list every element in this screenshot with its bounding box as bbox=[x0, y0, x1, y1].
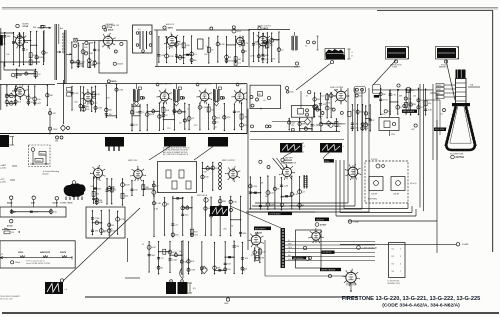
svg-text:V1: V1 bbox=[392, 249, 394, 251]
svg-text:3.3K: 3.3K bbox=[233, 202, 238, 204]
svg-text:2.2M: 2.2M bbox=[283, 186, 288, 188]
svg-text:1M: 1M bbox=[236, 246, 239, 248]
svg-text:10K: 10K bbox=[215, 168, 219, 170]
svg-text:2ND RECT MODULE: 2ND RECT MODULE bbox=[321, 270, 335, 272]
svg-text:5CG8: 5CG8 bbox=[23, 26, 29, 28]
svg-text:2.2M: 2.2M bbox=[202, 107, 207, 109]
svg-text:3DT6: 3DT6 bbox=[168, 27, 174, 29]
svg-text:AUDIO IF: AUDIO IF bbox=[166, 23, 175, 26]
svg-text:3DK6: 3DK6 bbox=[18, 252, 24, 254]
svg-text:470K: 470K bbox=[108, 228, 113, 230]
svg-text:4.7K: 4.7K bbox=[294, 194, 299, 196]
svg-text:1 amp: 1 amp bbox=[353, 222, 359, 224]
svg-text:3.3K: 3.3K bbox=[205, 177, 210, 179]
svg-text:.01: .01 bbox=[263, 100, 266, 102]
svg-text:470K: 470K bbox=[95, 218, 100, 220]
svg-text:10K: 10K bbox=[289, 196, 293, 198]
svg-text:3.3K: 3.3K bbox=[99, 202, 104, 204]
svg-text:3RD IF: 3RD IF bbox=[240, 84, 247, 86]
svg-text:470K: 470K bbox=[28, 74, 33, 76]
svg-text:+12: +12 bbox=[0, 254, 3, 256]
svg-text:4.7K: 4.7K bbox=[96, 94, 101, 96]
svg-text:Series, No. 1337: Series, No. 1337 bbox=[0, 297, 13, 300]
svg-text:2.2M: 2.2M bbox=[134, 112, 139, 114]
svg-text:680mf: 680mf bbox=[40, 153, 45, 155]
svg-text:68K: 68K bbox=[243, 233, 247, 235]
svg-text:470K: 470K bbox=[326, 102, 331, 104]
svg-text:68K: 68K bbox=[97, 63, 101, 65]
svg-text:1ST VIDEO IF: 1ST VIDEO IF bbox=[160, 84, 172, 86]
svg-text:10K: 10K bbox=[244, 258, 248, 260]
svg-text:21YP4A: 21YP4A bbox=[456, 156, 465, 159]
svg-text:10K: 10K bbox=[227, 264, 231, 266]
svg-text:3.3K: 3.3K bbox=[428, 110, 433, 112]
svg-text:2.2M: 2.2M bbox=[16, 42, 21, 44]
svg-text:VERT LINEARITY: VERT LINEARITY bbox=[290, 205, 305, 208]
svg-text:68K: 68K bbox=[7, 36, 11, 38]
svg-text:FOCUS: FOCUS bbox=[371, 159, 378, 161]
svg-text:1500mf: 1500mf bbox=[117, 64, 123, 66]
svg-text:6BC8: 6BC8 bbox=[108, 30, 114, 32]
svg-text:.047: .047 bbox=[411, 129, 415, 131]
svg-text:1: 1 bbox=[400, 249, 401, 251]
svg-text:LIGHT CIRCROTA: LIGHT CIRCROTA bbox=[363, 246, 378, 249]
svg-text:120V: 120V bbox=[53, 129, 58, 131]
svg-text:3.3K: 3.3K bbox=[151, 247, 156, 249]
svg-text:56K: 56K bbox=[216, 118, 220, 120]
svg-text:68K: 68K bbox=[14, 96, 18, 98]
svg-text:10K: 10K bbox=[99, 223, 103, 225]
svg-text:2.2M: 2.2M bbox=[118, 89, 123, 91]
svg-text:1M: 1M bbox=[265, 196, 268, 198]
svg-text:1500: 1500 bbox=[290, 92, 294, 94]
svg-text:270K: 270K bbox=[89, 53, 94, 55]
svg-text:120: 120 bbox=[53, 113, 56, 115]
svg-text:1M: 1M bbox=[232, 257, 235, 259]
svg-text:180: 180 bbox=[408, 98, 411, 100]
svg-text:10K: 10K bbox=[175, 235, 179, 237]
svg-text:4.5: 4.5 bbox=[193, 288, 196, 290]
svg-text:3: 3 bbox=[400, 256, 401, 258]
svg-text:1M: 1M bbox=[97, 50, 100, 52]
svg-text:100K: 100K bbox=[89, 43, 94, 45]
svg-text:1M: 1M bbox=[206, 46, 209, 48]
svg-text:7: 7 bbox=[400, 271, 401, 273]
svg-text:470K: 470K bbox=[383, 100, 388, 102]
svg-text:4 LAMP: 4 LAMP bbox=[462, 243, 469, 246]
svg-text:VERT MODULE: VERT MODULE bbox=[293, 258, 303, 260]
svg-text:470K: 470K bbox=[125, 185, 130, 187]
svg-text:1M: 1M bbox=[383, 94, 386, 96]
svg-text:(28 of 1): (28 of 1) bbox=[410, 183, 417, 185]
svg-text:VERT: VERT bbox=[437, 85, 441, 87]
svg-text:5V3GT: 5V3GT bbox=[320, 225, 327, 227]
svg-text:(+12V): (+12V) bbox=[0, 168, 6, 170]
svg-text:GND: GND bbox=[224, 303, 229, 305]
svg-text:4: 4 bbox=[352, 52, 353, 54]
svg-text:470K: 470K bbox=[228, 61, 233, 63]
svg-text:68K: 68K bbox=[263, 206, 267, 208]
svg-text:V3: V3 bbox=[392, 264, 394, 266]
svg-text:3.3K: 3.3K bbox=[74, 93, 79, 95]
svg-text:VERT OSC: VERT OSC bbox=[128, 160, 138, 162]
svg-text:(CODE 334-6-A62/A, 334-6-N62/A: (CODE 334-6-A62/A, 334-6-N62/A) bbox=[382, 302, 460, 308]
svg-text:5AQ5: 5AQ5 bbox=[7, 201, 13, 204]
svg-text:VERT HOLD: VERT HOLD bbox=[197, 195, 208, 197]
svg-text:2.2M: 2.2M bbox=[259, 258, 264, 260]
svg-text:2.2M: 2.2M bbox=[252, 186, 257, 188]
svg-text:AUDIO OUTPUT: AUDIO OUTPUT bbox=[258, 24, 272, 27]
svg-text:+2: +2 bbox=[303, 146, 305, 148]
svg-text:56K: 56K bbox=[151, 255, 155, 257]
svg-text:6BC8: 6BC8 bbox=[111, 81, 117, 83]
svg-text:3.3K: 3.3K bbox=[154, 208, 159, 210]
svg-text:270: 270 bbox=[11, 232, 14, 234]
svg-text:10K: 10K bbox=[191, 261, 195, 263]
svg-text:(+12V): (+12V) bbox=[0, 182, 6, 184]
svg-text:TO TELEPHONE: TO TELEPHONE bbox=[387, 281, 399, 283]
svg-text:V4: V4 bbox=[392, 271, 394, 273]
svg-text:21 KV MODULE: 21 KV MODULE bbox=[269, 213, 281, 215]
svg-text:B+: B+ bbox=[437, 97, 439, 99]
svg-text:MAGNET: MAGNET bbox=[439, 66, 448, 69]
svg-text:68K: 68K bbox=[222, 201, 226, 203]
svg-text:2.2M: 2.2M bbox=[97, 108, 102, 110]
svg-text:5CG8: 5CG8 bbox=[53, 202, 59, 204]
svg-text:AUDIO TAKE OFF: AUDIO TAKE OFF bbox=[104, 24, 120, 27]
svg-text:10K: 10K bbox=[80, 65, 84, 67]
svg-text:16 BOOST: 16 BOOST bbox=[316, 219, 324, 221]
svg-text:1M: 1M bbox=[230, 225, 233, 227]
svg-text:VERT OUTPUT: VERT OUTPUT bbox=[222, 160, 236, 162]
svg-text:150mf: 150mf bbox=[36, 160, 41, 162]
svg-text:6AW7GTB: 6AW7GTB bbox=[40, 251, 51, 254]
svg-text:HOR FREQ: HOR FREQ bbox=[368, 199, 378, 201]
svg-text:470K: 470K bbox=[169, 56, 174, 58]
svg-text:HOR OUTPUT: HOR OUTPUT bbox=[255, 228, 266, 230]
svg-text:56K: 56K bbox=[166, 110, 170, 112]
svg-text:8: 8 bbox=[352, 56, 353, 58]
svg-text:680mf: 680mf bbox=[318, 116, 323, 118]
svg-text:WIDTH: WIDTH bbox=[380, 114, 386, 116]
svg-text:+-4: +-4 bbox=[64, 289, 67, 291]
svg-text:2.2M: 2.2M bbox=[90, 65, 95, 67]
svg-text:YOKE: YOKE bbox=[392, 67, 398, 69]
svg-text:5CG8: 5CG8 bbox=[7, 225, 13, 227]
svg-text:68K: 68K bbox=[333, 95, 337, 97]
svg-text:2ND VIDEO IF: 2ND VIDEO IF bbox=[200, 84, 213, 86]
svg-text:3.3K: 3.3K bbox=[171, 42, 176, 44]
svg-text:PICTURE TUBE: PICTURE TUBE bbox=[450, 154, 464, 156]
svg-text:FIL: FIL bbox=[288, 251, 290, 253]
svg-text:Bracket: Bracket bbox=[43, 173, 50, 176]
svg-text:10K: 10K bbox=[262, 251, 266, 253]
svg-text:22K 4W: 22K 4W bbox=[393, 194, 399, 196]
svg-text:470K: 470K bbox=[101, 232, 106, 234]
svg-text:5: 5 bbox=[400, 264, 401, 266]
svg-text:100mf: 100mf bbox=[15, 262, 20, 264]
svg-text:68K: 68K bbox=[236, 112, 240, 114]
svg-text:2.2M: 2.2M bbox=[166, 46, 171, 48]
svg-text:1M: 1M bbox=[194, 60, 197, 62]
svg-text:470K: 470K bbox=[202, 171, 207, 173]
svg-text:10K: 10K bbox=[323, 104, 327, 106]
svg-text:4.5: 4.5 bbox=[138, 29, 141, 31]
svg-text:25AT4: 25AT4 bbox=[60, 251, 67, 254]
svg-text:Ant: Ant bbox=[60, 27, 63, 30]
svg-text:1M: 1M bbox=[238, 59, 241, 61]
svg-text:6AW7 MODULE: 6AW7 MODULE bbox=[283, 162, 297, 165]
svg-text:DEFL MODULE: DEFL MODULE bbox=[403, 111, 414, 113]
svg-text:FIRESTONE 13-G-220, 13-G-221,: FIRESTONE 13-G-220, 13-G-221, 13-G-222, … bbox=[342, 296, 480, 302]
svg-text:1M: 1M bbox=[19, 74, 22, 76]
svg-text:47: 47 bbox=[306, 96, 308, 98]
svg-text:0.1: 0.1 bbox=[441, 114, 444, 116]
svg-text:22K 4W: 22K 4W bbox=[371, 194, 377, 196]
svg-text:470K: 470K bbox=[220, 44, 225, 46]
svg-text:2.2M: 2.2M bbox=[172, 259, 177, 261]
svg-text:220: 220 bbox=[359, 95, 362, 97]
svg-text:POWER TRANS: POWER TRANS bbox=[60, 202, 73, 205]
svg-text:68K: 68K bbox=[302, 124, 306, 126]
svg-text:200: 200 bbox=[338, 126, 341, 128]
svg-text:470K: 470K bbox=[120, 219, 125, 221]
svg-text:2.2M: 2.2M bbox=[156, 203, 161, 205]
svg-text:470K: 470K bbox=[149, 114, 154, 116]
svg-text:2.2M: 2.2M bbox=[190, 270, 195, 272]
svg-text:1M: 1M bbox=[111, 225, 114, 227]
svg-text:V2: V2 bbox=[392, 256, 394, 258]
svg-text:+2: +2 bbox=[342, 146, 344, 148]
svg-text:300: 300 bbox=[33, 27, 36, 29]
svg-text:470K: 470K bbox=[250, 56, 255, 58]
svg-text:56K: 56K bbox=[14, 103, 18, 105]
svg-text:B+: B+ bbox=[288, 240, 290, 242]
